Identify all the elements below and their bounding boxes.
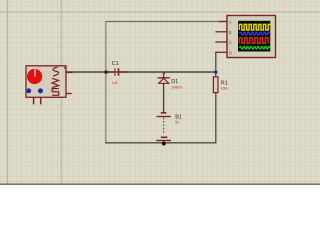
oscilloscope: [227, 16, 276, 58]
battery B1: [156, 113, 171, 143]
svg-text:1N4007: 1N4007: [171, 86, 182, 90]
junction node at battery / ground rail: [162, 142, 166, 146]
svg-text:B: B: [229, 30, 232, 35]
aux pin right lower: [66, 93, 72, 95]
capacitor C1: [108, 68, 129, 76]
wire: right vertical through R1 down to rail: [215, 52, 217, 143]
svg-text:C: C: [229, 40, 232, 45]
wire: oscilloscope pin C stub: [215, 41, 227, 43]
junction node at R1 top / pin D: [214, 70, 217, 73]
wire: oscilloscope pin B stub: [215, 31, 227, 33]
wire: main horizontal node wire from signal generator through C1 to R1: [66, 71, 216, 73]
bottom pin 2: [40, 97, 42, 104]
wire: bottom ground rail: [105, 142, 216, 144]
wire: top wire from node A vertical to oscilloscope pin A: [106, 21, 227, 23]
signal generator: [26, 66, 73, 105]
waveform glyph sine (rotated): [53, 67, 59, 76]
sheet template vertical line x=7.6: [7, 0, 9, 184]
svg-text:1uF: 1uF: [112, 81, 118, 85]
resistor R1: [213, 77, 218, 93]
screen: [238, 21, 270, 52]
wire: oscilloscope pin D wire: [215, 51, 227, 53]
junction red dot at diode top: [163, 72, 165, 74]
knob: [27, 69, 42, 84]
waveform glyph square (rotated): [52, 89, 59, 96]
channel B trace (blue wave): [239, 32, 269, 35]
origin marker: [64, 67, 66, 69]
svg-text:5V: 5V: [175, 121, 180, 125]
waveform glyph triangle (rotated): [52, 78, 59, 87]
channel A trace (yellow square wave): [239, 24, 270, 30]
svg-text:100k: 100k: [221, 86, 228, 90]
svg-text:D1: D1: [171, 79, 178, 85]
wire: oscilloscope pin A stub over top wire: [219, 21, 227, 23]
sheet template horizontal line y=12: [0, 11, 320, 13]
preset pot left: [26, 88, 31, 93]
wire: left vertical wire x=105.8: [105, 21, 107, 143]
wire: diode branch from main wire to battery: [163, 72, 165, 113]
diode D1: [158, 78, 170, 84]
channel C trace (red square wave): [239, 38, 268, 44]
junction node at signal generator / C1 / scope A: [104, 71, 107, 74]
channel D trace (green wave): [239, 46, 270, 49]
bottom pin 1: [33, 97, 35, 104]
sheet bottom border line: [0, 183, 320, 185]
svg-text:D: D: [229, 50, 232, 55]
sheet template vertical line x=61: [60, 0, 62, 184]
sheet background with grid: [0, 0, 320, 185]
white margin below sheet: [0, 185, 320, 189]
svg-text:C1: C1: [112, 61, 119, 67]
output pin right: [66, 71, 73, 73]
svg-text:A: A: [229, 20, 232, 25]
preset pot right: [38, 88, 43, 93]
